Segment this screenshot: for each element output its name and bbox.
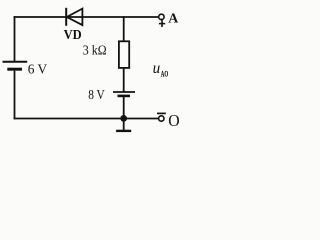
svg-text:VD: VD — [64, 28, 82, 43]
battery B2 8V — [113, 92, 135, 96]
battery B1 6V — [3, 62, 28, 69]
ground symbol below junction — [116, 119, 131, 131]
wire: left vertical upper (corner to 6V battery) — [14, 16, 16, 62]
resistor R1 3k (rectangle body) — [119, 41, 129, 68]
label: 6 V value — [28, 62, 47, 77]
wire: branch vertical lower (8V battery to bottom junction) — [123, 97, 125, 119]
wire: left vertical lower (6V battery to bottom corner) — [14, 71, 16, 120]
junction: dot on bottom wire — [120, 115, 127, 122]
terminal A (open circle) — [159, 14, 164, 19]
svg-text:6 V: 6 V — [28, 62, 47, 77]
wire: bottom horizontal from left corner to terminal O — [14, 118, 159, 120]
wire: branch vertical upper (top wire to resistor) — [123, 16, 125, 42]
label: 8 V value — [88, 88, 105, 103]
diode VD (cathode bar left, triangle pointing left) — [66, 8, 82, 26]
svg-text:u: u — [153, 60, 161, 77]
polarity + at node A — [159, 20, 165, 27]
wire: top horizontal from left corner to terminal A — [14, 16, 159, 18]
label: VD designator — [64, 28, 82, 43]
label: u_AO output voltage — [153, 60, 169, 79]
svg-text:AO: AO — [161, 69, 169, 79]
terminal O (open circle) — [159, 116, 164, 121]
label: 3 kOhm value — [83, 43, 107, 58]
svg-text:O: O — [168, 111, 179, 130]
wire: branch vertical middle (resistor to 8V battery) — [123, 68, 125, 92]
node label O — [168, 111, 179, 130]
polarity - at node O — [157, 112, 166, 114]
svg-text:A: A — [168, 11, 179, 26]
svg-text:8 V: 8 V — [88, 88, 105, 103]
node label A — [168, 11, 179, 26]
svg-text:3 kΩ: 3 kΩ — [83, 43, 107, 58]
